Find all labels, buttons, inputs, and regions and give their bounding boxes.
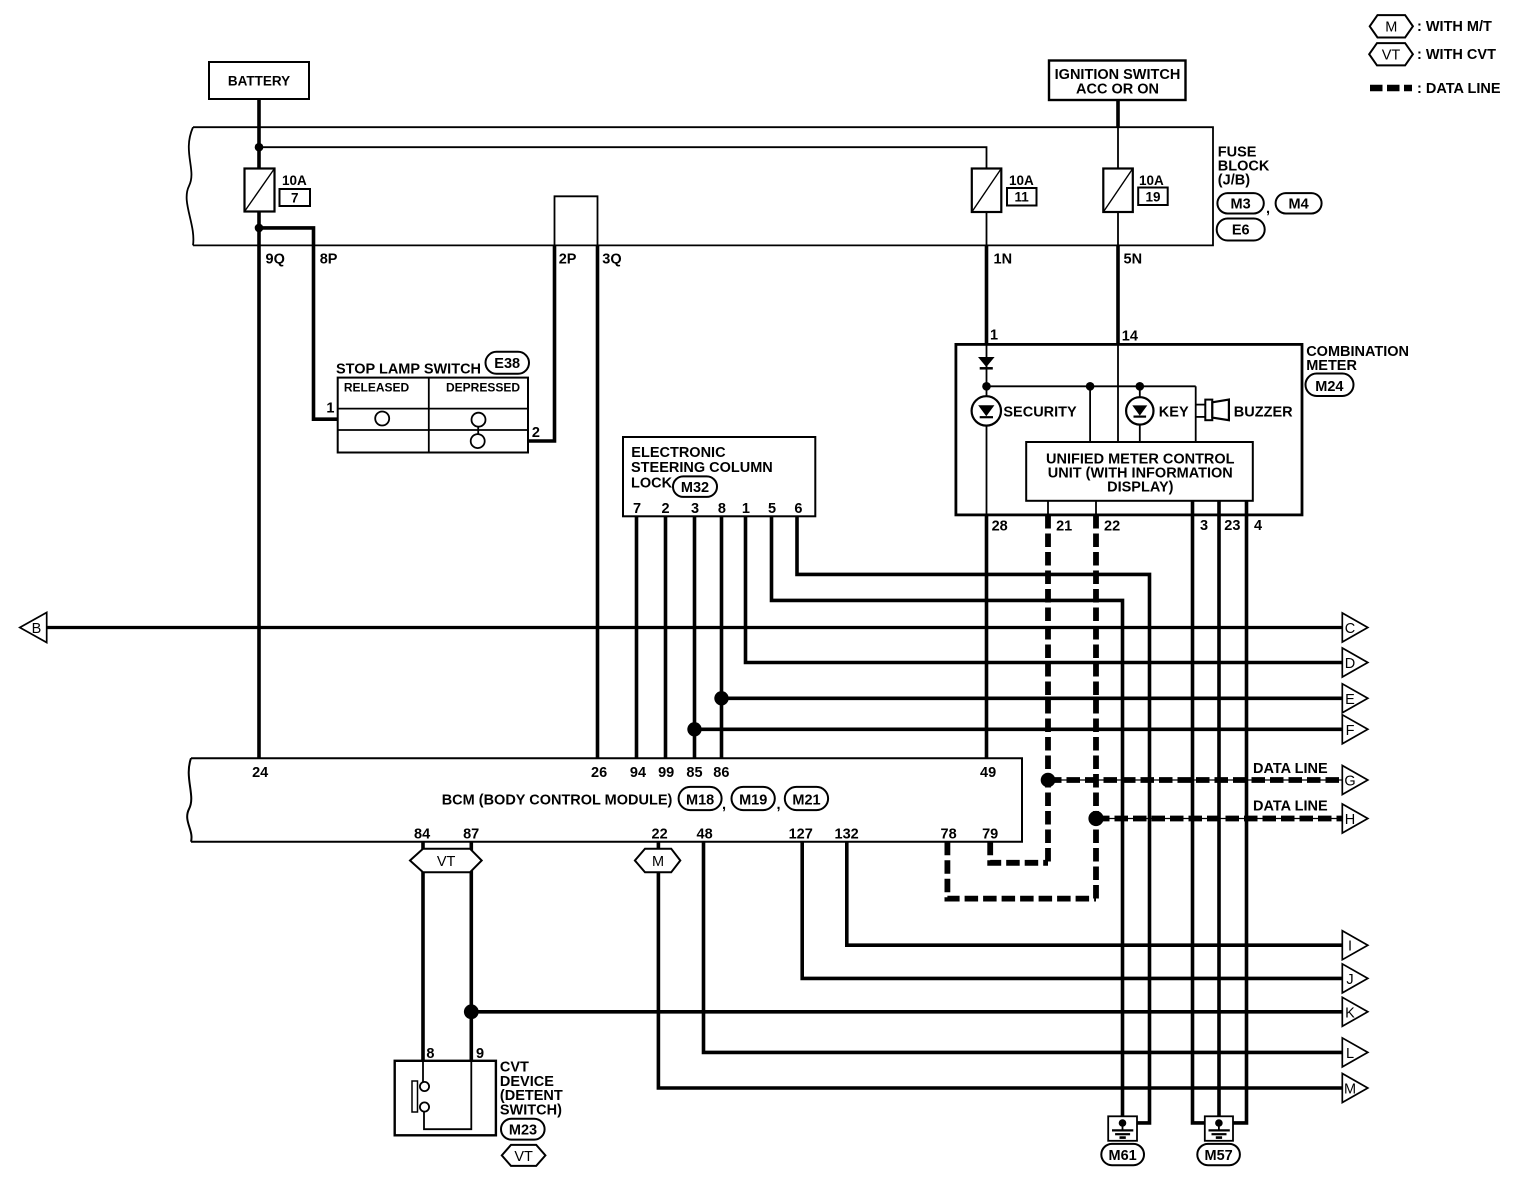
svg-text:8: 8 xyxy=(718,501,726,517)
svg-text:2: 2 xyxy=(661,501,669,517)
svg-text:,: , xyxy=(777,797,781,813)
svg-text:SECURITY: SECURITY xyxy=(1003,405,1077,421)
svg-text:BATTERY: BATTERY xyxy=(228,74,290,89)
svg-text:M24: M24 xyxy=(1315,379,1343,395)
svg-text:14: 14 xyxy=(1122,329,1138,345)
svg-text:M19: M19 xyxy=(739,793,767,809)
svg-text:8: 8 xyxy=(426,1046,434,1062)
svg-text:M61: M61 xyxy=(1108,1148,1136,1164)
svg-text:J: J xyxy=(1346,972,1353,988)
svg-text:8P: 8P xyxy=(320,252,338,268)
svg-text:BUZZER: BUZZER xyxy=(1234,405,1293,421)
svg-text:22: 22 xyxy=(1104,519,1120,535)
svg-text:E6: E6 xyxy=(1232,223,1250,239)
svg-text:SWITCH): SWITCH) xyxy=(500,1102,562,1118)
svg-text:3Q: 3Q xyxy=(602,252,621,268)
svg-text:DISPLAY): DISPLAY) xyxy=(1107,480,1174,496)
svg-text:VT: VT xyxy=(514,1149,533,1165)
svg-text:M32: M32 xyxy=(681,480,709,496)
svg-text:KEY: KEY xyxy=(1159,405,1189,421)
svg-text:M21: M21 xyxy=(792,793,820,809)
svg-text:L: L xyxy=(1346,1046,1354,1062)
svg-text:84: 84 xyxy=(414,827,430,843)
svg-text:E38: E38 xyxy=(494,356,520,372)
svg-text:(J/B): (J/B) xyxy=(1218,173,1250,189)
svg-text:1: 1 xyxy=(326,401,334,417)
svg-text:VT: VT xyxy=(1382,48,1401,64)
svg-text:BCM (BODY CONTROL MODULE): BCM (BODY CONTROL MODULE) xyxy=(442,793,673,809)
svg-text:M: M xyxy=(1344,1082,1356,1098)
svg-text:C: C xyxy=(1345,621,1355,637)
svg-text:DATA LINE: DATA LINE xyxy=(1253,761,1328,777)
svg-text:99: 99 xyxy=(658,765,674,781)
svg-text:79: 79 xyxy=(982,827,998,843)
svg-text:ELECTRONIC: ELECTRONIC xyxy=(631,445,726,461)
svg-text:132: 132 xyxy=(835,827,859,843)
svg-text:F: F xyxy=(1346,723,1355,739)
svg-text:85: 85 xyxy=(686,765,702,781)
svg-text:21: 21 xyxy=(1056,519,1072,535)
svg-text:E: E xyxy=(1345,692,1355,708)
svg-text:K: K xyxy=(1345,1005,1355,1021)
svg-text:5: 5 xyxy=(768,501,776,517)
svg-text:48: 48 xyxy=(697,827,713,843)
svg-text:G: G xyxy=(1344,774,1355,790)
svg-text:19: 19 xyxy=(1145,190,1160,205)
svg-text:10A: 10A xyxy=(282,173,307,188)
svg-text:4: 4 xyxy=(1254,518,1262,534)
svg-text:87: 87 xyxy=(463,827,479,843)
svg-text:3: 3 xyxy=(1200,518,1208,534)
svg-text:86: 86 xyxy=(713,765,729,781)
svg-text:7: 7 xyxy=(291,191,299,206)
svg-text:7: 7 xyxy=(633,501,641,517)
svg-text:5N: 5N xyxy=(1124,252,1143,268)
svg-text:DATA LINE: DATA LINE xyxy=(1253,798,1328,814)
svg-text:LOCK: LOCK xyxy=(631,476,673,492)
svg-text:94: 94 xyxy=(630,765,646,781)
svg-text:ACC OR ON: ACC OR ON xyxy=(1076,82,1159,98)
svg-text:M18: M18 xyxy=(686,793,714,809)
svg-text:22: 22 xyxy=(652,827,668,843)
svg-text:RELEASED: RELEASED xyxy=(344,381,410,395)
svg-text:1N: 1N xyxy=(994,252,1013,268)
svg-text:I: I xyxy=(1348,939,1352,955)
svg-text:: DATA LINE: : DATA LINE xyxy=(1417,81,1501,97)
svg-text:: WITH CVT: : WITH CVT xyxy=(1417,47,1496,63)
svg-text:11: 11 xyxy=(1015,190,1030,205)
svg-text:10A: 10A xyxy=(1139,173,1164,188)
svg-text:26: 26 xyxy=(591,765,607,781)
svg-text:,: , xyxy=(1266,201,1270,217)
svg-text:D: D xyxy=(1345,656,1355,672)
svg-text:STEERING COLUMN: STEERING COLUMN xyxy=(631,460,773,476)
svg-text:9: 9 xyxy=(476,1046,484,1062)
svg-text:1: 1 xyxy=(990,328,998,344)
svg-text:DEPRESSED: DEPRESSED xyxy=(446,381,520,395)
svg-text:: WITH M/T: : WITH M/T xyxy=(1417,19,1492,35)
svg-text:2P: 2P xyxy=(559,252,577,268)
svg-text:127: 127 xyxy=(789,827,813,843)
svg-text:H: H xyxy=(1345,812,1355,828)
svg-text:23: 23 xyxy=(1224,518,1240,534)
svg-text:METER: METER xyxy=(1306,358,1357,374)
svg-text:78: 78 xyxy=(941,827,957,843)
svg-text:VT: VT xyxy=(437,854,456,870)
svg-text:6: 6 xyxy=(794,501,802,517)
svg-text:M57: M57 xyxy=(1204,1148,1232,1164)
svg-text:3: 3 xyxy=(691,501,699,517)
svg-text:49: 49 xyxy=(980,765,996,781)
svg-text:,: , xyxy=(722,797,726,813)
svg-text:2: 2 xyxy=(532,425,540,441)
svg-text:B: B xyxy=(32,621,42,637)
svg-text:M3: M3 xyxy=(1231,197,1251,213)
svg-text:M23: M23 xyxy=(509,1123,537,1139)
svg-text:1: 1 xyxy=(742,501,750,517)
svg-text:10A: 10A xyxy=(1009,173,1034,188)
svg-text:M4: M4 xyxy=(1289,197,1309,213)
svg-text:M: M xyxy=(1385,20,1397,36)
svg-text:9Q: 9Q xyxy=(266,252,285,268)
svg-text:M: M xyxy=(652,854,664,870)
svg-text:28: 28 xyxy=(992,519,1008,535)
svg-text:24: 24 xyxy=(252,765,268,781)
svg-text:STOP LAMP SWITCH: STOP LAMP SWITCH xyxy=(336,362,481,378)
